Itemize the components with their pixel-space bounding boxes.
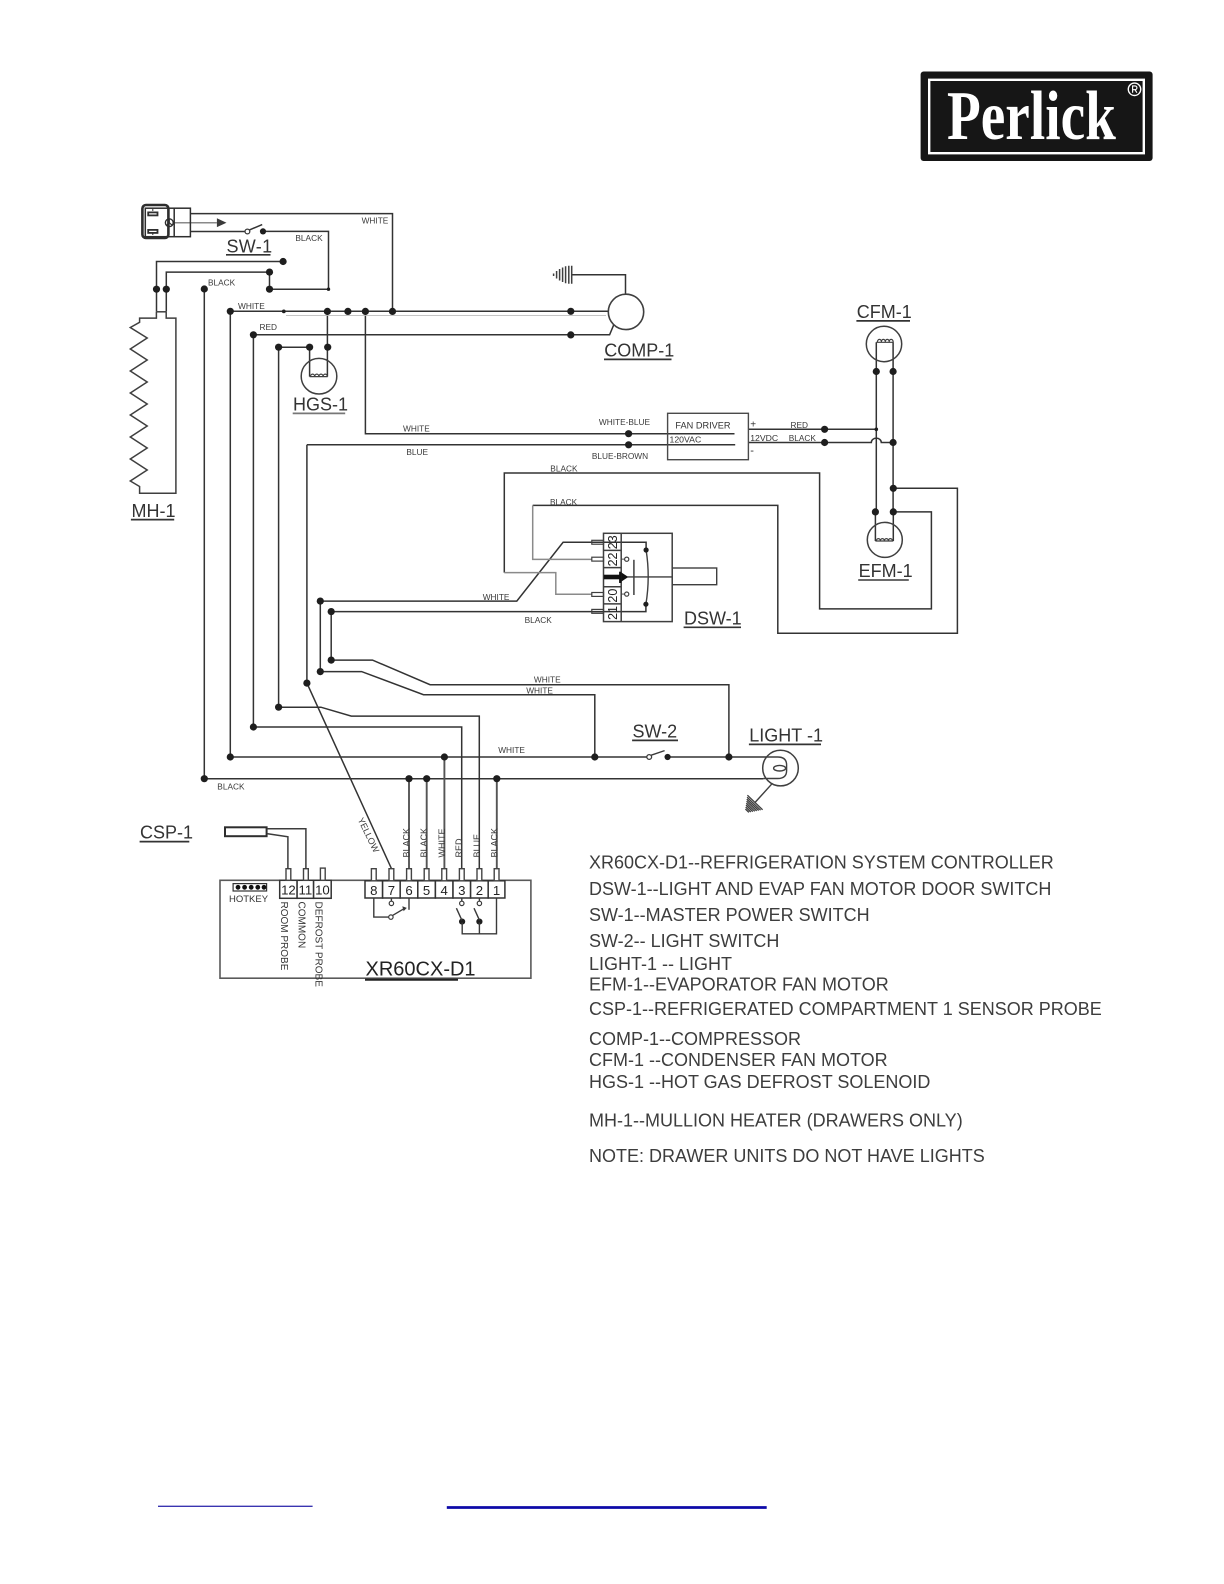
svg-text:MH-1--MULLION HEATER (DRAWERS: MH-1--MULLION HEATER (DRAWERS ONLY) <box>589 1111 963 1131</box>
svg-text:SW-1: SW-1 <box>227 237 273 257</box>
svg-text:BLACK: BLACK <box>208 278 236 288</box>
svg-text:MH-1: MH-1 <box>132 501 176 521</box>
svg-text:10: 10 <box>315 883 330 898</box>
svg-text:RED: RED <box>454 838 464 858</box>
svg-text:21: 21 <box>606 606 620 620</box>
svg-text:5: 5 <box>423 883 430 898</box>
svg-text:BLACK: BLACK <box>217 781 245 791</box>
svg-text:23: 23 <box>606 535 620 549</box>
svg-text:SW-1--MASTER POWER SWITCH: SW-1--MASTER POWER SWITCH <box>589 905 870 925</box>
svg-text:DEFROST PROBE: DEFROST PROBE <box>312 902 323 988</box>
svg-text:CSP-1--REFRIGERATED COMPARTMEN: CSP-1--REFRIGERATED COMPARTMENT 1 SENSOR… <box>589 999 1102 1019</box>
svg-text:BLACK: BLACK <box>789 433 817 443</box>
svg-text:LIGHT-1 -- LIGHT: LIGHT-1 -- LIGHT <box>589 954 732 974</box>
svg-text:SW-2: SW-2 <box>633 722 678 742</box>
svg-text:WHITE: WHITE <box>238 301 265 311</box>
svg-text:WHITE: WHITE <box>534 674 561 684</box>
svg-text:BLUE: BLUE <box>406 447 428 457</box>
svg-text:CFM-1: CFM-1 <box>857 302 912 322</box>
svg-text:SW-2-- LIGHT SWITCH: SW-2-- LIGHT SWITCH <box>589 931 779 951</box>
svg-text:CSP-1: CSP-1 <box>140 823 193 843</box>
svg-text:RED: RED <box>791 420 809 430</box>
svg-text:6: 6 <box>405 883 412 898</box>
svg-text:BLACK: BLACK <box>550 464 578 474</box>
svg-text:3: 3 <box>458 883 465 898</box>
svg-text:LIGHT -1: LIGHT -1 <box>749 726 823 746</box>
svg-text:BLACK: BLACK <box>489 828 499 858</box>
svg-text:WHITE: WHITE <box>498 745 525 755</box>
svg-text:NOTE: DRAWER UNITS DO NOT HAVE: NOTE: DRAWER UNITS DO NOT HAVE LIGHTS <box>589 1146 985 1166</box>
svg-text:WHITE: WHITE <box>483 592 510 602</box>
svg-text:WHITE: WHITE <box>403 423 430 433</box>
svg-text:BLACK: BLACK <box>295 233 323 243</box>
svg-text:ROOM PROBE: ROOM PROBE <box>278 902 289 971</box>
svg-text:BLUE: BLUE <box>472 834 482 858</box>
svg-text:WHITE: WHITE <box>437 829 447 858</box>
svg-text:WHITE-BLUE: WHITE-BLUE <box>599 417 651 427</box>
svg-text:8: 8 <box>370 883 377 898</box>
svg-text:BLACK: BLACK <box>550 497 578 507</box>
svg-text:DSW-1: DSW-1 <box>684 608 742 628</box>
svg-text:HGS-1: HGS-1 <box>293 395 348 415</box>
svg-text:XR60CX-D1--REFRIGERATION SYSTE: XR60CX-D1--REFRIGERATION SYSTEM CONTROLL… <box>589 852 1054 872</box>
svg-text:11: 11 <box>299 883 313 898</box>
svg-text:4: 4 <box>441 883 448 898</box>
svg-text:-: - <box>750 445 754 457</box>
svg-text:Perlick: Perlick <box>947 77 1116 155</box>
svg-text:BLACK: BLACK <box>525 615 553 625</box>
svg-text:RED: RED <box>260 322 278 332</box>
svg-text:XR60CX-D1: XR60CX-D1 <box>366 959 476 981</box>
svg-text:EFM-1: EFM-1 <box>859 561 913 581</box>
svg-text:COMP-1--COMPRESSOR: COMP-1--COMPRESSOR <box>589 1029 801 1049</box>
svg-text:COMMON: COMMON <box>295 902 306 949</box>
svg-text:HOTKEY: HOTKEY <box>229 894 269 905</box>
svg-text:2: 2 <box>476 883 483 898</box>
svg-text:BLUE-BROWN: BLUE-BROWN <box>592 451 648 461</box>
svg-text:BLACK: BLACK <box>419 828 429 858</box>
svg-text:WHITE: WHITE <box>362 215 389 225</box>
svg-text:120VAC: 120VAC <box>670 434 702 444</box>
svg-text:CFM-1 --CONDENSER FAN MOTOR: CFM-1 --CONDENSER FAN MOTOR <box>589 1050 888 1070</box>
svg-text:+: + <box>750 420 756 431</box>
svg-text:WHITE: WHITE <box>526 686 553 696</box>
svg-text:1: 1 <box>493 883 500 898</box>
svg-text:DSW-1--LIGHT AND EVAP FAN MOTO: DSW-1--LIGHT AND EVAP FAN MOTOR DOOR SWI… <box>589 879 1051 899</box>
svg-text:COMP-1: COMP-1 <box>604 341 674 361</box>
svg-text:12VDC: 12VDC <box>750 433 778 443</box>
svg-text:12: 12 <box>281 883 296 898</box>
svg-text:FAN DRIVER: FAN DRIVER <box>675 420 730 430</box>
svg-text:HGS-1 --HOT GAS DEFROST SOLENO: HGS-1 --HOT GAS DEFROST SOLENOID <box>589 1072 930 1092</box>
svg-text:EFM-1--EVAPORATOR FAN MOTOR: EFM-1--EVAPORATOR FAN MOTOR <box>589 975 889 995</box>
svg-text:20: 20 <box>606 589 620 603</box>
svg-text:22: 22 <box>606 552 620 566</box>
svg-text:BLACK: BLACK <box>402 828 412 858</box>
svg-text:7: 7 <box>388 883 395 898</box>
